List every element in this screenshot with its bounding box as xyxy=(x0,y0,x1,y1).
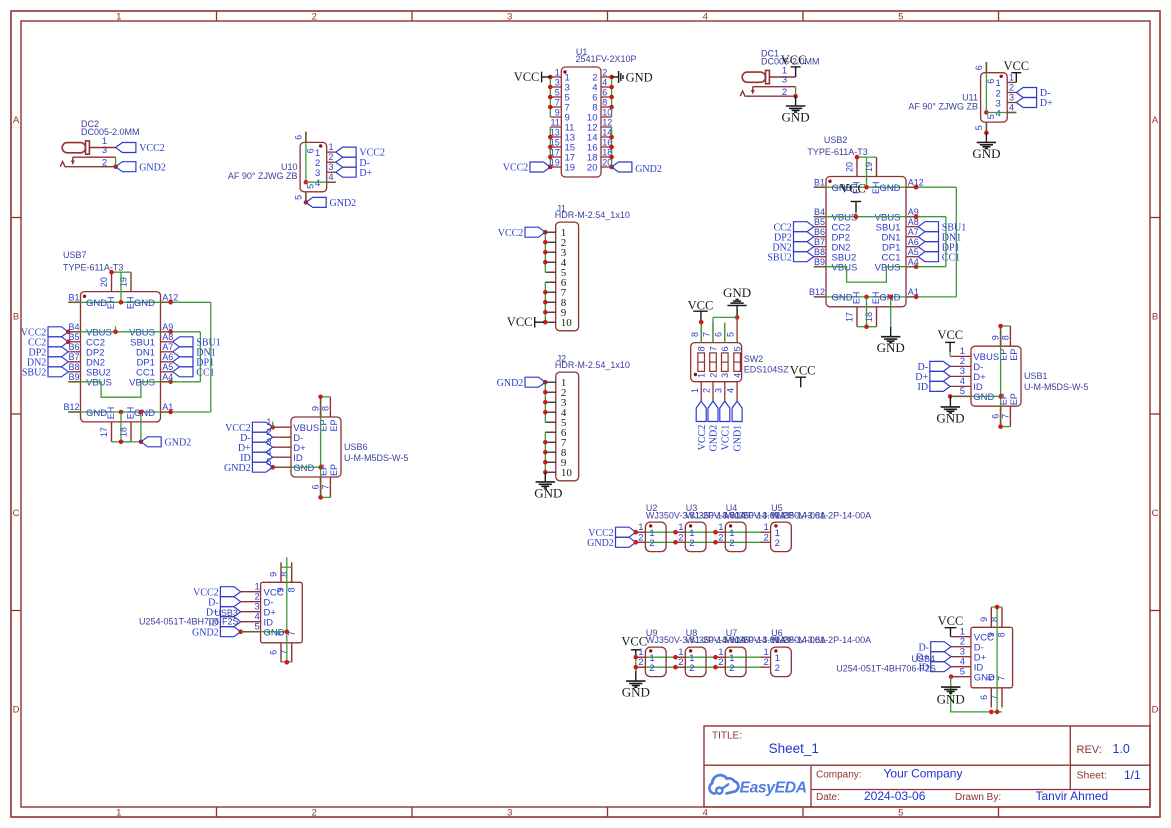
USB2 pins 20 19 top xyxy=(856,157,858,176)
wire bus terminal row net1 xyxy=(636,656,764,658)
EasyEDA logo xyxy=(709,775,738,794)
svg-text:Drawn By:: Drawn By: xyxy=(955,792,1001,803)
USB7 pin A12 xyxy=(161,301,173,303)
net flag D- at U11 pin 2 xyxy=(1016,88,1036,98)
svg-text:1.0: 1.0 xyxy=(1113,742,1130,756)
net flag SBU1 at USB7 pin A8 xyxy=(173,337,193,347)
svg-text:3: 3 xyxy=(329,162,334,172)
svg-text:20: 20 xyxy=(99,277,109,287)
svg-text:8: 8 xyxy=(602,98,607,108)
junction dot A9 xyxy=(168,330,173,335)
svg-text:8: 8 xyxy=(321,406,331,411)
svg-text:8: 8 xyxy=(990,617,1000,622)
svg-text:Sheet:: Sheet: xyxy=(1077,770,1107,782)
U11 pin 6 shield top xyxy=(985,62,987,73)
wire to GND2 flag xyxy=(140,412,142,442)
svg-text:TYPE-611A-T3: TYPE-611A-T3 xyxy=(63,262,123,272)
svg-text:D: D xyxy=(13,704,20,715)
svg-text:VCC: VCC xyxy=(938,614,964,628)
svg-text:U-M-M5DS-W-5: U-M-M5DS-W-5 xyxy=(1024,382,1088,392)
svg-text:3: 3 xyxy=(555,78,560,88)
DC1 pin 3 line with switch arrow xyxy=(753,86,796,88)
svg-text:WJ350V-3.81-2P-14-00A: WJ350V-3.81-2P-14-00A xyxy=(771,510,871,520)
net flag DN2 at USB7 pin B7 xyxy=(48,357,68,367)
USB7 pin B1 xyxy=(68,301,80,303)
U10 pin 1 indicator dot xyxy=(319,144,322,147)
U7 pin 1 indicator dot xyxy=(729,649,732,652)
svg-text:EasyEDA: EasyEDA xyxy=(740,780,807,797)
svg-text:6: 6 xyxy=(305,148,315,153)
wire shield channel USB6 xyxy=(320,397,322,498)
svg-text:CC1: CC1 xyxy=(196,367,214,378)
junction dots terminal row xyxy=(673,655,678,660)
svg-text:8: 8 xyxy=(279,572,289,577)
terminal block U4 body xyxy=(725,522,746,552)
svg-text:Date:: Date: xyxy=(816,792,840,803)
net flag GND2 at J2 pin 1 xyxy=(525,377,545,387)
wire GND row B12-A1 xyxy=(814,296,957,298)
svg-text:2: 2 xyxy=(602,68,607,78)
svg-text:VCC2: VCC2 xyxy=(498,228,524,239)
net flag VCC2 at U1 pin 19 xyxy=(530,162,550,172)
ground GND below USB2 xyxy=(890,327,892,337)
svg-text:3: 3 xyxy=(1009,93,1014,103)
wire VCC2 bus left pins 11-19 xyxy=(549,127,551,167)
svg-text:GND: GND xyxy=(626,70,653,84)
net flag D+ at U11 pin 3 xyxy=(1016,98,1036,108)
svg-text:2: 2 xyxy=(649,663,654,674)
wire shield top bracket USB4 xyxy=(991,606,1002,608)
power flag VCC at J1 pin 10 xyxy=(534,317,536,328)
svg-text:DC005-2.0MM: DC005-2.0MM xyxy=(81,127,140,137)
svg-text:A: A xyxy=(13,115,20,126)
svg-text:VCC2: VCC2 xyxy=(697,425,708,451)
svg-text:1: 1 xyxy=(116,808,121,819)
wire VBUS row B4-A9 xyxy=(68,331,200,333)
svg-text:17: 17 xyxy=(844,312,854,322)
wire GND row B1-A12 xyxy=(814,186,957,188)
DC1 pin plate xyxy=(766,70,770,83)
svg-text:2: 2 xyxy=(718,657,723,668)
svg-text:1: 1 xyxy=(555,68,560,78)
svg-text:2: 2 xyxy=(775,538,780,549)
power flag VCC at U1 pin 1 xyxy=(541,72,543,83)
wire USB7 shield top bracket xyxy=(112,271,132,273)
junction dot SW2 pin 8 xyxy=(699,320,704,325)
svg-text:6: 6 xyxy=(311,484,321,489)
svg-text:1: 1 xyxy=(116,12,121,23)
U11 pin 5 shield bottom xyxy=(985,122,987,133)
junction dots USB7 bottom GND row xyxy=(119,410,124,415)
svg-text:7: 7 xyxy=(279,650,289,655)
svg-text:GND: GND xyxy=(832,293,853,304)
net flag VCC2 at USB3 pin 1 xyxy=(220,587,240,597)
wire bus J1 pins 1-5 xyxy=(544,232,546,272)
U3 pin 1 indicator dot xyxy=(689,524,692,527)
junction dot USB4 pin 5 xyxy=(949,674,954,679)
wire VBUS B9 loop to A4 xyxy=(814,267,946,282)
USB7 pins B4-B9 xyxy=(68,331,80,333)
svg-text:B6: B6 xyxy=(814,227,825,237)
wire A9 to A4 right xyxy=(199,332,201,382)
svg-text:GND2: GND2 xyxy=(165,437,192,448)
svg-text:5: 5 xyxy=(255,622,260,633)
svg-text:U-M-M5DS-W-5: U-M-M5DS-W-5 xyxy=(344,453,408,463)
DC1 pin 2 line with spring contact xyxy=(740,91,795,96)
DC2 pin 3 line with switch arrow xyxy=(73,156,116,158)
U2 pins 1 2 xyxy=(635,531,645,533)
svg-text:GND: GND xyxy=(879,183,900,194)
svg-text:3: 3 xyxy=(507,808,512,819)
svg-text:EP: EP xyxy=(329,419,339,431)
U2 pin 1 indicator dot xyxy=(649,524,652,527)
svg-text:B7: B7 xyxy=(814,237,825,247)
net flag SBU1 at USB2 pin A8 xyxy=(918,222,938,232)
svg-text:5: 5 xyxy=(294,195,304,200)
svg-text:USB6: USB6 xyxy=(344,442,368,452)
net flag DP1 at USB2 pin A6 xyxy=(918,242,938,252)
wire GND row B1-A12 xyxy=(68,301,211,303)
connector USB2 body xyxy=(826,177,906,307)
wire U11 pin4 xyxy=(986,112,1007,114)
svg-text:4: 4 xyxy=(703,808,708,819)
svg-text:2: 2 xyxy=(638,532,643,543)
U8 pin 1 indicator dot xyxy=(689,649,692,652)
SW2 pin 1 indicator dot xyxy=(694,373,697,376)
SW2 switch slots xyxy=(698,353,705,372)
wire SW2 pin 8 xyxy=(700,322,702,343)
wire bus J2 pins 6-10 xyxy=(544,432,546,472)
junction dot USB7 pin 20 xyxy=(109,270,114,275)
ground GND at J2 pin 10 xyxy=(544,472,546,482)
connector USB6 body xyxy=(291,417,341,477)
svg-text:6: 6 xyxy=(294,135,304,140)
svg-text:3: 3 xyxy=(782,75,787,86)
USB2 pin B12 xyxy=(814,296,826,298)
U9 pin 1 indicator dot xyxy=(649,649,652,652)
svg-text:3: 3 xyxy=(720,373,730,378)
svg-text:GND: GND xyxy=(723,285,751,300)
svg-text:4: 4 xyxy=(726,388,736,393)
svg-text:VCC: VCC xyxy=(688,298,714,312)
svg-text:HDR-M-2.54_1x10: HDR-M-2.54_1x10 xyxy=(555,210,630,220)
net flag D+ at USB6 pin 3 xyxy=(252,442,272,452)
connector U1 body xyxy=(561,67,601,177)
net flag D- at USB6 pin 2 xyxy=(252,432,272,442)
USB3 pins 6 7 bottom xyxy=(280,643,282,663)
DC2 barrel xyxy=(62,143,85,153)
net flag GND2 at USB3 pin 5 xyxy=(220,627,240,637)
svg-text:GND: GND xyxy=(293,463,314,474)
svg-text:2: 2 xyxy=(329,152,334,162)
junction dot U11 pin 4 wire xyxy=(984,110,989,115)
net flag GND2 at SW2 pin 2 xyxy=(708,401,718,421)
svg-text:GND: GND xyxy=(782,110,810,125)
svg-text:6: 6 xyxy=(991,414,1001,419)
svg-text:A6: A6 xyxy=(162,352,173,362)
USB7 pin B12 xyxy=(68,411,80,413)
svg-text:EP: EP xyxy=(1009,349,1019,361)
svg-text:4: 4 xyxy=(329,172,334,182)
svg-text:WJ350V-3.81-2P-14-00A: WJ350V-3.81-2P-14-00A xyxy=(771,635,871,645)
svg-text:2: 2 xyxy=(689,538,694,549)
net flag GND2 at USB7 shield xyxy=(141,437,161,447)
USB7 pin A1 xyxy=(161,411,173,413)
terminal block U2 body xyxy=(645,522,666,552)
wire DC2 pin3 to pin2 xyxy=(115,157,117,167)
svg-text:6: 6 xyxy=(269,650,279,655)
wire bus J1 pins 6-10 xyxy=(544,282,546,322)
svg-text:6: 6 xyxy=(986,79,996,84)
net flag VCC1 at SW2 pin 3 xyxy=(720,401,730,421)
svg-text:B: B xyxy=(13,311,19,322)
net flag GND1 at SW2 pin 4 xyxy=(732,401,742,421)
junction dots USB3 shield xyxy=(285,629,290,634)
svg-text:2: 2 xyxy=(708,373,718,378)
net flag VCC2 at DC2 pin 1 xyxy=(116,143,136,153)
junction dot DC2 pin 2 xyxy=(113,164,118,169)
svg-text:9: 9 xyxy=(991,335,1001,340)
wire USB2 shield bottom xyxy=(866,297,868,327)
junction dots USB7 GND row xyxy=(119,300,124,305)
svg-text:B1: B1 xyxy=(68,293,79,303)
U1 pin 1 indicator dot xyxy=(563,70,566,73)
wire stub SW2 pin 6 xyxy=(724,323,726,343)
U1 left pins 1-19 xyxy=(550,76,561,78)
svg-text:8: 8 xyxy=(286,587,296,592)
wire stub above USB6 pin 1 xyxy=(272,422,274,428)
svg-text:VCC: VCC xyxy=(514,70,540,84)
net flag DN2 at USB2 pin B7 xyxy=(794,242,814,252)
svg-text:B1: B1 xyxy=(814,177,825,187)
svg-text:7: 7 xyxy=(997,676,1007,681)
svg-text:5: 5 xyxy=(898,808,903,819)
net flag D- at U10 pin 2 xyxy=(336,157,356,167)
connector USB1 body xyxy=(971,346,1021,406)
DC1 barrel xyxy=(742,72,765,82)
svg-text:19: 19 xyxy=(864,162,874,172)
U4 pins 1 2 xyxy=(715,531,725,533)
U11 pins 1-4 xyxy=(1007,81,1016,83)
row ticks left xyxy=(11,217,21,219)
net flag DP2 at USB7 pin B6 xyxy=(48,347,68,357)
svg-text:GND2: GND2 xyxy=(224,463,251,474)
svg-text:SBU2: SBU2 xyxy=(22,367,46,378)
svg-text:Company:: Company: xyxy=(816,770,862,781)
svg-text:2: 2 xyxy=(638,657,643,668)
svg-text:GND: GND xyxy=(973,392,994,403)
svg-text:EH: EH xyxy=(106,407,116,420)
svg-text:2: 2 xyxy=(729,538,734,549)
svg-text:8: 8 xyxy=(690,332,700,337)
svg-text:5: 5 xyxy=(305,184,315,189)
junction dots shield USB1 xyxy=(998,324,1003,329)
USB3 pins 1-5 left xyxy=(241,591,261,593)
junction dot SW2 pin 5 xyxy=(735,315,740,320)
switch SW2 body xyxy=(691,343,742,382)
USB7 pin 1 indicator dot xyxy=(83,295,86,298)
svg-text:U254-051T-4BH706-F2S: U254-051T-4BH706-F2S xyxy=(139,617,239,627)
USB2 pins 17 18 bottom xyxy=(856,307,858,327)
wire A12 to A1 right xyxy=(955,187,957,297)
USB6 pins 6 7 bottom xyxy=(320,477,322,497)
net flag ID at USB4 pin 4 xyxy=(931,662,951,672)
power flag VCC at USB1 pin 1 xyxy=(949,342,951,352)
wire bus terminal row net2 xyxy=(636,541,764,543)
power flag VCC at U11 pin 1 xyxy=(1015,73,1017,83)
svg-text:GND2: GND2 xyxy=(330,198,357,209)
svg-text:2: 2 xyxy=(764,657,769,668)
title block frame xyxy=(704,726,1150,807)
USB3 pins 9 8 top xyxy=(280,562,282,582)
svg-text:7: 7 xyxy=(555,98,560,108)
terminal block U3 body xyxy=(685,522,706,552)
connector U11 body xyxy=(981,73,1008,122)
net flag SBU2 at USB7 pin B8 xyxy=(48,367,68,377)
junction dots shield USB6 xyxy=(318,395,323,400)
junction dot USB2 pin 20 xyxy=(855,155,860,160)
svg-text:5: 5 xyxy=(986,114,996,119)
svg-text:20: 20 xyxy=(844,162,854,172)
svg-text:B7: B7 xyxy=(68,352,79,362)
net flag VCC2 at U10 pin 1 xyxy=(336,147,356,157)
junction dot U10 pin 4 wire xyxy=(304,180,309,185)
USB7 pins 17 18 bottom xyxy=(111,422,113,442)
svg-text:9: 9 xyxy=(269,572,279,577)
svg-text:A6: A6 xyxy=(908,237,919,247)
svg-text:4: 4 xyxy=(602,78,607,88)
net flag DN1 at USB7 pin A7 xyxy=(173,347,193,357)
U7 pins 1 2 xyxy=(715,656,725,658)
connector U10 body xyxy=(300,142,327,191)
svg-text:B12: B12 xyxy=(63,402,79,412)
wire GND2 bus right pins 12-20 xyxy=(611,127,613,167)
wire VCC bus left pins 1-9 xyxy=(549,77,551,117)
terminal block U7 body xyxy=(725,647,746,677)
junction dots J1 xyxy=(543,230,548,235)
junction dot A9 xyxy=(914,214,919,219)
svg-text:USB7: USB7 xyxy=(63,250,87,260)
svg-text:2: 2 xyxy=(678,657,683,668)
junction dots U1 right xyxy=(609,75,614,80)
wire GND row USB3 xyxy=(241,631,287,633)
svg-text:EP: EP xyxy=(329,464,339,476)
svg-text:5: 5 xyxy=(960,386,965,397)
wire shield bottom bracket xyxy=(1001,426,1011,428)
U4 pin 1 indicator dot xyxy=(729,524,732,527)
svg-text:ID: ID xyxy=(918,382,929,393)
USB4 pins 6 7 bottom xyxy=(990,688,992,708)
svg-text:Your Company: Your Company xyxy=(884,767,963,781)
net flag D- at USB4 pin 2 xyxy=(931,642,951,652)
svg-text:GND: GND xyxy=(936,410,964,425)
svg-text:10: 10 xyxy=(561,467,573,479)
wire USB2 shield top bracket xyxy=(857,156,877,158)
ground GND at U11 pin 5 xyxy=(985,133,987,143)
svg-text:4: 4 xyxy=(315,178,320,189)
svg-text:VCC: VCC xyxy=(937,328,963,342)
wire VCC-GND drop xyxy=(635,657,637,671)
ground GND at U1 pin 2 xyxy=(612,76,619,78)
svg-text:ID: ID xyxy=(918,662,929,673)
net flag ID at USB1 pin 4 xyxy=(930,381,950,391)
svg-text:TITLE:: TITLE: xyxy=(712,731,742,742)
J1 pins 1-10 xyxy=(545,231,555,233)
wire shield top bracket xyxy=(1001,325,1011,327)
svg-text:7: 7 xyxy=(1001,414,1011,419)
net flag DP1 at USB7 pin A6 xyxy=(173,357,193,367)
svg-text:GND: GND xyxy=(877,340,905,355)
svg-text:7: 7 xyxy=(321,484,331,489)
svg-text:4: 4 xyxy=(703,12,708,23)
svg-text:VCC: VCC xyxy=(621,634,647,648)
USB4 pins 1-5 left xyxy=(951,636,971,638)
svg-text:B12: B12 xyxy=(809,287,825,297)
connector J1 body xyxy=(556,222,579,331)
svg-text:9: 9 xyxy=(276,587,286,592)
svg-text:Sheet_1: Sheet_1 xyxy=(769,741,819,756)
wire A12 to A1 right xyxy=(210,302,212,412)
net flag D+ at USB3 pin 3 xyxy=(220,607,240,617)
net flag D+ at U10 pin 3 xyxy=(336,167,356,177)
svg-text:6: 6 xyxy=(979,695,989,700)
svg-text:VCC2: VCC2 xyxy=(503,163,529,174)
wire GND row USB1 xyxy=(950,395,1001,397)
svg-text:B: B xyxy=(1152,311,1158,322)
wire shield channel USB3 xyxy=(286,557,288,663)
svg-text:VCC1: VCC1 xyxy=(720,425,731,451)
terminal block U8 body xyxy=(685,647,706,677)
svg-text:AF 90° ZJWG ZB: AF 90° ZJWG ZB xyxy=(908,101,978,111)
U3 pins 1 2 xyxy=(675,531,685,533)
wire VBUS row B4-A9 xyxy=(814,216,946,218)
net flag D+ at USB1 pin 3 xyxy=(930,371,950,381)
svg-text:6: 6 xyxy=(720,346,730,351)
svg-text:B8: B8 xyxy=(814,247,825,257)
svg-text:5: 5 xyxy=(726,332,736,337)
svg-text:5: 5 xyxy=(960,667,965,678)
svg-text:C: C xyxy=(1152,508,1159,519)
svg-text:3: 3 xyxy=(102,145,107,156)
U11 pin 1 indicator dot xyxy=(1000,75,1003,78)
connector USB7 body xyxy=(81,292,161,422)
svg-text:7: 7 xyxy=(708,346,718,351)
junction dots USB2 bottom GND row xyxy=(864,295,869,300)
svg-text:GND: GND xyxy=(622,685,650,700)
net flag SBU2 at USB2 pin B8 xyxy=(794,252,814,262)
svg-text:VCC: VCC xyxy=(507,315,533,329)
svg-text:B8: B8 xyxy=(68,362,79,372)
svg-text:4: 4 xyxy=(733,373,743,378)
USB2 pins B4-B9 xyxy=(814,216,826,218)
junction dot U10 pin 5 xyxy=(304,200,309,205)
svg-text:4: 4 xyxy=(1009,103,1014,113)
junction dots power drop xyxy=(634,655,639,660)
svg-text:VCC: VCC xyxy=(781,53,807,67)
svg-text:B6: B6 xyxy=(68,342,79,352)
junction dot U11 pin 5 xyxy=(984,130,989,135)
svg-text:2: 2 xyxy=(782,87,787,98)
svg-text:2: 2 xyxy=(718,532,723,543)
USB2 pin B1 xyxy=(814,186,826,188)
svg-text:Tanvir Ahmed: Tanvir Ahmed xyxy=(1036,789,1109,803)
wire bus terminal row net1 xyxy=(636,531,764,533)
svg-text:EH: EH xyxy=(852,292,862,305)
wire USB7 shield bottom xyxy=(120,412,122,442)
svg-text:3: 3 xyxy=(507,12,512,23)
svg-text:2: 2 xyxy=(764,532,769,543)
svg-text:HDR-M-2.54_1x10: HDR-M-2.54_1x10 xyxy=(555,360,630,370)
